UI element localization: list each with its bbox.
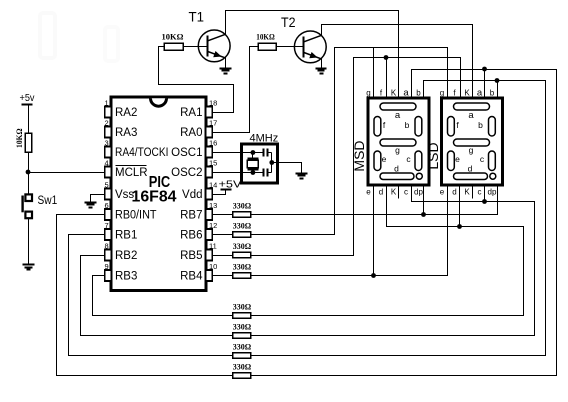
svg-text:e: e [382, 154, 387, 164]
svg-text:RB3: RB3 [115, 271, 137, 283]
svg-text:b: b [478, 120, 483, 130]
svg-text:330Ω: 330Ω [233, 201, 252, 210]
pin 16 (OSC1) [206, 147, 213, 158]
svg-text:17: 17 [209, 119, 217, 128]
svg-text:RA3: RA3 [115, 127, 137, 139]
LSD segment d [454, 173, 488, 180]
svg-text:e: e [440, 187, 445, 196]
svg-text:10: 10 [209, 262, 217, 271]
svg-text:T1: T1 [189, 9, 205, 25]
wire OSC2 pin15 to crystal [213, 172, 253, 174]
svg-text:b: b [416, 88, 421, 97]
svg-text:4: 4 [105, 159, 109, 168]
svg-text:dp: dp [414, 187, 423, 196]
pin 10 (RB4) [206, 270, 213, 281]
wire LSD K bottom stub [472, 186, 474, 199]
resistor R6 (RB5) 330&#937; [233, 252, 251, 257]
MSD segment f [374, 117, 381, 137]
7-segment display MSD body [368, 98, 429, 185]
resistor R1 10K&#937; (vertical) [25, 133, 32, 152]
node caps midpoint [269, 160, 274, 165]
wire RB3 pin9 to bottom row [93, 276, 233, 316]
wire MSD g stub [373, 48, 375, 99]
svg-text:10KΩ: 10KΩ [256, 32, 275, 42]
svg-text:11: 11 [209, 242, 217, 251]
node OSC2 junction [251, 170, 256, 175]
wire RB pin 12 to resistor [213, 234, 233, 236]
node MCLR junction [26, 170, 31, 175]
MSD segment b [415, 117, 422, 137]
node LSD c [482, 199, 487, 204]
pin 8 (RB2) [105, 250, 112, 261]
resistor R9 (RB2) 330&#937; [233, 333, 251, 338]
wire segment-b net: RB1 resistor to MSD/LSD b [251, 81, 546, 356]
wire segment-f net: RB5 resistor to MSD/LSD f [251, 58, 461, 256]
7-segment display LSD body [442, 98, 503, 185]
svg-text:a: a [468, 110, 474, 121]
svg-text:RA4/TOCKI: RA4/TOCKI [115, 147, 169, 159]
svg-text:14: 14 [209, 181, 217, 190]
wire RB pin 10 to resistor [213, 275, 233, 277]
svg-text:OSC1: OSC1 [171, 147, 202, 159]
node MSD f [384, 55, 389, 60]
wire segment-a net: RB0 resistor to MSD/LSD a [251, 70, 557, 376]
svg-text:g: g [469, 145, 474, 155]
pin 3 (RA4/TOCKI) [105, 147, 112, 158]
svg-text:g: g [366, 88, 370, 97]
wire segment-e net: RB4 resistor to MSD/LSD e [251, 186, 448, 276]
svg-text:330Ω: 330Ω [233, 221, 252, 230]
svg-text:g: g [440, 88, 444, 97]
MSD segment a [380, 103, 416, 110]
svg-text:dp: dp [488, 187, 497, 196]
svg-text:c: c [478, 187, 482, 196]
svg-text:4MHz: 4MHz [250, 133, 279, 145]
wire RB0 pin6 to bottom row [57, 215, 233, 376]
svg-text:a: a [477, 87, 483, 98]
svg-text:g: g [395, 145, 400, 155]
node LSD b [495, 78, 500, 83]
svg-text:6: 6 [105, 201, 109, 210]
wire LSD c stub [484, 186, 486, 202]
node LSD d [457, 224, 462, 229]
svg-text:15: 15 [209, 159, 217, 168]
svg-text:c: c [404, 187, 408, 196]
svg-text:a: a [403, 87, 409, 98]
pin 9 (RB3) [105, 270, 112, 281]
wire node down to Sw1 [28, 173, 30, 195]
faint scan artifact 1 [40, 13, 55, 58]
pin 15 (OSC2) [206, 167, 213, 178]
wire LSD b stub [497, 81, 499, 99]
svg-text:RB6: RB6 [180, 230, 202, 242]
svg-text:K: K [391, 88, 397, 97]
resistor R5 (RB6) 330&#937; [233, 232, 251, 237]
svg-text:3: 3 [105, 139, 109, 148]
transistor T2 [294, 31, 326, 63]
ground (oscillator) [296, 173, 308, 175]
LSD segment e [448, 151, 455, 171]
wire caps to ground [272, 163, 302, 174]
pin 13 (RB7) [206, 209, 213, 220]
capacitor C2 [253, 172, 264, 174]
wire +5v to resistor [28, 105, 30, 134]
svg-text:b: b [490, 88, 495, 97]
svg-text:OSC2: OSC2 [171, 167, 202, 179]
svg-text:RB5: RB5 [180, 250, 202, 262]
LSD segment f [448, 117, 455, 137]
ground (Vss) [85, 202, 97, 204]
resistor R2 10K&#937; (T1 base) [164, 43, 183, 50]
resistor R7 (RB4) 330&#937; [233, 273, 251, 278]
MSD segment e [374, 151, 381, 171]
IC notch [151, 98, 167, 106]
LSD segment a [454, 103, 490, 110]
svg-text:330Ω: 330Ω [233, 302, 252, 311]
wire segment-c net: RB2 resistor to MSD/LSD c [251, 186, 535, 336]
svg-text:K: K [464, 88, 470, 97]
svg-text:330Ω: 330Ω [233, 242, 252, 251]
resistor R11 (RB0) 330&#937; [233, 373, 251, 378]
wire T1 collector to MSD K [226, 11, 399, 99]
wire segment-d net: RB3 resistor to MSD/LSD d [251, 186, 524, 316]
LSD segment g [454, 139, 490, 146]
pin 6 (RB0/INT) [105, 209, 112, 220]
wire T2 emitter to ground [321, 59, 323, 68]
svg-text:Vdd: Vdd [182, 189, 202, 201]
ground (T2 emitter) [316, 68, 327, 70]
svg-text:9: 9 [105, 262, 109, 271]
wire MSD f stub [386, 58, 388, 99]
wire MSD dp stub [423, 186, 425, 215]
svg-text:1: 1 [105, 99, 109, 108]
svg-text:e: e [455, 154, 460, 164]
LSD decimal point [490, 173, 496, 179]
node OSC1 junction [251, 150, 256, 155]
svg-text:330Ω: 330Ω [233, 362, 252, 371]
svg-text:K: K [391, 187, 397, 196]
wire T2 collector to LSD K [322, 25, 473, 99]
resistor R10 (RB1) 330&#937; [233, 353, 251, 358]
switch Sw1 [25, 194, 32, 201]
pin 1 (RA2) [105, 107, 112, 118]
svg-text:Sw1: Sw1 [38, 193, 58, 207]
wire RB pin 13 to resistor [213, 214, 233, 216]
resistor R4 (RB7) 330&#937; [233, 212, 251, 217]
svg-text:RB4: RB4 [180, 271, 203, 283]
svg-text:8: 8 [105, 242, 109, 251]
svg-text:330Ω: 330Ω [233, 262, 252, 271]
MSD segment d [380, 173, 414, 180]
svg-text:18: 18 [209, 99, 217, 108]
svg-text:13: 13 [209, 201, 217, 210]
wire RB pin 11 to resistor [213, 255, 233, 257]
transistor T1 [198, 30, 230, 62]
svg-text:5: 5 [105, 181, 109, 190]
wire caps common [271, 153, 273, 173]
wire segment-g net: RB6 resistor to MSD/LSD g [251, 48, 448, 235]
svg-text:+5v: +5v [20, 92, 36, 104]
pin 5 (Vss) [105, 189, 112, 200]
wire resistor to T2 base [277, 46, 304, 48]
pin 14 (Vdd) [206, 189, 213, 200]
wire Sw1 to ground [28, 219, 30, 265]
crystal X1 [252, 153, 254, 159]
MSD segment g [380, 139, 416, 146]
svg-text:RA2: RA2 [115, 107, 137, 119]
svg-text:e: e [366, 187, 371, 196]
MCLR overline [116, 165, 147, 167]
MSD segment c [415, 151, 422, 171]
+5V supply bar (Vdd) [221, 189, 232, 191]
wire RB1 pin7 to bottom row [69, 235, 233, 356]
wire LSD a stub [484, 70, 486, 99]
svg-text:MSD: MSD [351, 140, 367, 171]
pin 11 (RB5) [206, 250, 213, 261]
MSD decimal point [416, 173, 422, 179]
svg-text:16F84: 16F84 [132, 189, 177, 206]
svg-text:RB1: RB1 [115, 230, 137, 242]
faint scan artifact 2 [105, 27, 118, 61]
wire MSD K bottom stub [398, 186, 400, 199]
wire resistor to node [28, 153, 30, 173]
pin 12 (RB6) [206, 229, 213, 240]
svg-text:330Ω: 330Ω [233, 322, 252, 331]
pin 18 (RA1) [206, 107, 213, 118]
svg-text:d: d [452, 187, 456, 196]
svg-text:MCLR: MCLR [115, 167, 148, 179]
svg-text:a: a [395, 110, 401, 121]
capacitor C1 [253, 152, 264, 154]
svg-text:RA1: RA1 [180, 107, 202, 119]
svg-text:RB2: RB2 [115, 250, 137, 262]
svg-text:7: 7 [105, 221, 109, 230]
node MSD e [371, 273, 376, 278]
wire OSC1 pin16 to crystal [213, 152, 253, 154]
wire Vdd pin14 to +5V [213, 190, 226, 195]
node LSD a [482, 67, 487, 72]
svg-text:d: d [379, 187, 383, 196]
PIC16F84 IC U1 body [111, 97, 206, 291]
pin 7 (RB1) [105, 229, 112, 240]
resistor R8 (RB3) 330&#937; [233, 313, 251, 318]
svg-text:RA0: RA0 [180, 127, 202, 139]
svg-text:RB7: RB7 [180, 210, 202, 222]
svg-text:+5V: +5V [219, 179, 242, 191]
wire node to MCLR pin 4 [29, 172, 105, 174]
svg-text:T2: T2 [281, 14, 296, 30]
wire RA0 pin17 to T2 base resistor [213, 47, 259, 133]
pin 4 (MCLR) [105, 167, 112, 178]
pin 2 (RA3) [105, 127, 112, 138]
svg-text:K: K [464, 187, 470, 196]
ground (below Sw1) [23, 264, 35, 266]
wire T1 emitter to ground [225, 58, 227, 68]
wire RA1 pin18 to T1 base resistor [159, 47, 234, 113]
+5v supply bar [22, 104, 33, 106]
svg-text:10KΩ: 10KΩ [162, 32, 184, 42]
LSD segment c [489, 151, 496, 171]
wire MSD e stub [373, 186, 375, 276]
pin 17 (RA0) [206, 127, 213, 138]
svg-text:16: 16 [209, 139, 217, 148]
svg-text:LSD: LSD [425, 142, 441, 169]
svg-text:b: b [405, 120, 410, 130]
wire Vss pin 5 to ground [91, 195, 105, 202]
svg-text:2: 2 [105, 119, 109, 128]
svg-text:d: d [394, 164, 399, 174]
node MSD dp [421, 212, 426, 217]
svg-text:330Ω: 330Ω [233, 342, 252, 351]
wire segment-dp net: RB7 resistor to MSD/LSD dp [251, 186, 498, 215]
svg-text:10KΩ: 10KΩ [14, 128, 24, 148]
ground (T1 emitter) [220, 68, 232, 70]
LSD segment b [489, 117, 496, 137]
svg-text:12: 12 [209, 221, 217, 230]
svg-text:d: d [468, 164, 473, 174]
wire RB2 pin8 to bottom row [81, 256, 233, 336]
resistor R3 10K&#937; (T2 base) [258, 43, 276, 50]
wire resistor to T1 base [184, 46, 208, 48]
wire LSD d stub [459, 186, 461, 227]
svg-text:RB0/INT: RB0/INT [115, 210, 157, 222]
oscillator module box [242, 144, 278, 183]
